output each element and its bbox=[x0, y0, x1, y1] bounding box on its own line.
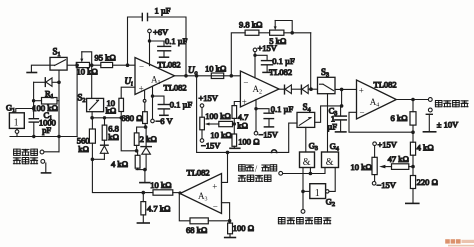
node diode/S3 bbox=[309, 87, 313, 91]
svg-text:TL082: TL082 bbox=[269, 67, 292, 77]
node 680 bottom bbox=[144, 125, 148, 129]
svg-text:0.1 µF: 0.1 µF bbox=[272, 56, 295, 66]
-15V supply A2 bbox=[254, 100, 258, 136]
wire feedback to output node bbox=[284, 32, 311, 34]
svg-text:kΩ: kΩ bbox=[108, 132, 119, 142]
resistor 100 Ohm (A3) bbox=[228, 221, 233, 237]
wire S2 bottom node bbox=[91, 112, 93, 118]
text 信号输入 bbox=[238, 175, 271, 181]
watermark bbox=[445, 239, 474, 246]
output terminal 2 bbox=[428, 108, 432, 112]
svg-text:100 Ω: 100 Ω bbox=[238, 137, 259, 147]
resistor 4.7 kOhm bbox=[141, 193, 146, 223]
op-amp A4 bbox=[357, 80, 397, 119]
gate G1 (one-shot) bbox=[9, 109, 33, 137]
offset trim +15V terminal bbox=[200, 104, 204, 117]
svg-text:−: − bbox=[243, 77, 248, 87]
resistor 4.7 kOhm (A2) bbox=[232, 106, 237, 119]
svg-text:TL082: TL082 bbox=[187, 168, 210, 178]
resistor 68 kOhm bbox=[190, 218, 208, 224]
+15V terminal (trim right) bbox=[373, 142, 377, 157]
wire S1 right to pot bbox=[67, 64, 76, 66]
svg-text:kΩ: kΩ bbox=[78, 144, 89, 154]
svg-text:680 Ω: 680 Ω bbox=[121, 113, 142, 123]
resistor R1 100 kOhm bbox=[34, 98, 59, 105]
node bus / 4.7k tap bbox=[142, 191, 146, 195]
ground at time pulse input bbox=[42, 163, 51, 173]
-6V supply terminal bbox=[151, 87, 155, 123]
op-amp A3 bbox=[180, 174, 222, 214]
text 时间脉 bbox=[14, 149, 38, 155]
svg-text:220 Ω: 220 Ω bbox=[417, 177, 438, 187]
resistor 2 kOhm bbox=[134, 133, 139, 146]
wire S4 output to hold node bbox=[315, 106, 342, 122]
svg-text:6 kΩ: 6 kΩ bbox=[391, 113, 408, 123]
svg-text:100 kΩ: 100 kΩ bbox=[205, 111, 231, 121]
svg-text:4.7 kΩ: 4.7 kΩ bbox=[147, 204, 171, 214]
node feedback tap bbox=[126, 63, 130, 67]
svg-text:10 kΩ: 10 kΩ bbox=[210, 130, 231, 140]
feedback wire A3 bbox=[179, 193, 190, 221]
-15V terminal (trim right) bbox=[372, 182, 376, 186]
svg-text:TL082: TL082 bbox=[374, 80, 397, 90]
wire 10k bottom long bbox=[121, 112, 136, 151]
resistor 560 kOhm bbox=[89, 118, 95, 160]
node pot right / S2 line bbox=[90, 63, 94, 67]
potentiometer 5 kOhm bbox=[270, 21, 293, 36]
op-amp A2 bbox=[240, 71, 279, 107]
G3 right pin bbox=[309, 168, 311, 174]
resistor 6 kOhm bbox=[410, 100, 416, 133]
node diode cathode bbox=[57, 81, 61, 85]
svg-text:100 Ω: 100 Ω bbox=[233, 223, 254, 233]
svg-text:0.1 µF: 0.1 µF bbox=[165, 36, 188, 46]
svg-text:10 kΩ: 10 kΩ bbox=[351, 162, 372, 172]
ground under 4k bbox=[140, 170, 150, 183]
node A3 output bbox=[178, 191, 181, 194]
decoupling cap 0.1uF (A2 top) bbox=[255, 55, 273, 72]
wire 68k to - node bbox=[208, 220, 229, 222]
ground under C3 bbox=[336, 131, 346, 133]
wire S1 left to ground bbox=[31, 65, 50, 72]
text 冲输入 bbox=[13, 158, 37, 164]
wire 680 to 2k bbox=[137, 127, 146, 133]
svg-text:9.8 kΩ: 9.8 kΩ bbox=[239, 19, 263, 29]
polarity input wire bbox=[301, 168, 310, 214]
wire hop on bus bbox=[272, 150, 277, 153]
text 极性信号输入 bbox=[278, 218, 330, 224]
switch S3 bbox=[318, 77, 336, 93]
diode under 6.8k bbox=[100, 140, 108, 159]
wire down to A3 bus bbox=[92, 159, 153, 192]
resistor 680 Ohm bbox=[143, 90, 148, 127]
svg-text:−: − bbox=[213, 201, 218, 211]
wire pot to 95k bbox=[90, 64, 101, 66]
ground under 220 bbox=[406, 202, 419, 204]
wire A1 noninverting input bbox=[121, 87, 135, 98]
resistor 6.8 kOhm bbox=[102, 116, 107, 140]
gate G4 bbox=[322, 152, 339, 168]
text 直流输出 bbox=[435, 101, 468, 107]
feedback riser A2 bbox=[231, 33, 245, 76]
svg-text:1: 1 bbox=[315, 188, 320, 199]
wire S4 control bbox=[305, 127, 307, 152]
sample/hold input terminal bbox=[279, 171, 283, 175]
decoupling capacitor 0.1uF at -6V bbox=[153, 96, 170, 115]
+15V supply A2 bbox=[253, 48, 257, 78]
resistor 10k at A1 + bbox=[119, 98, 124, 111]
svg-text:95 kΩ: 95 kΩ bbox=[95, 53, 116, 63]
diode beside S1 bbox=[34, 78, 59, 87]
decoupling capacitor 0.1uF at +6V bbox=[150, 41, 171, 57]
potentiometer (offset trim left) bbox=[200, 117, 219, 139]
svg-text:+: + bbox=[359, 86, 364, 96]
wire Uo sampling bus bbox=[197, 76, 297, 153]
time pulse input terminal 1 bbox=[40, 150, 59, 154]
svg-text:TL082: TL082 bbox=[164, 83, 187, 93]
+6V supply terminal bbox=[148, 29, 152, 65]
diode D2 after A2 bbox=[301, 85, 317, 94]
resistor 95 kOhm bbox=[101, 62, 113, 67]
wire 9.8k to 5k pot bbox=[259, 32, 270, 34]
resistor 10 kOhm to A3 bbox=[153, 190, 180, 195]
svg-text:&: & bbox=[303, 157, 311, 168]
svg-text:4 kΩ: 4 kΩ bbox=[111, 159, 128, 169]
riser to pot left bbox=[76, 65, 78, 136]
capacitor C3 1uF bbox=[335, 106, 346, 131]
svg-text:10 kΩ: 10 kΩ bbox=[77, 67, 98, 77]
svg-text:+: + bbox=[242, 97, 247, 107]
svg-text:+: + bbox=[139, 83, 144, 93]
svg-text:2 kΩ: 2 kΩ bbox=[140, 134, 157, 144]
switch S1 bbox=[50, 57, 67, 70]
potentiometer 10 kOhm (trim right) bbox=[372, 157, 377, 181]
-15V terminal (trim left) bbox=[200, 139, 204, 143]
resistor 4 kOhm bbox=[135, 151, 140, 170]
sample/hold wire bbox=[283, 168, 325, 174]
ground under 100 Ohm (A3) bbox=[225, 237, 236, 239]
svg-text:pF: pF bbox=[42, 125, 51, 135]
svg-text:−: − bbox=[360, 108, 365, 118]
gate G3 bbox=[300, 152, 315, 168]
svg-text:47 kΩ: 47 kΩ bbox=[388, 154, 409, 164]
wire 95k to A1 inverting input bbox=[113, 64, 135, 66]
feedback capacitor 1uF bbox=[128, 13, 187, 75]
output terminal 1 bbox=[428, 98, 432, 102]
wiper tie wire bbox=[82, 52, 92, 99]
resistor 47 kOhm bbox=[379, 164, 413, 170]
potentiometer 10k (input attenuator) bbox=[76, 52, 89, 68]
resistor 10 kOhm (A2 input) bbox=[211, 73, 223, 79]
svg-text:−15V: −15V bbox=[259, 130, 279, 140]
svg-text:0.1 µF: 0.1 µF bbox=[271, 104, 294, 114]
wire A2 + input bbox=[234, 102, 240, 106]
ground symbol at output bbox=[423, 114, 435, 132]
wire A4 output bbox=[396, 99, 428, 101]
svg-text:kΩ: kΩ bbox=[106, 105, 117, 115]
decoupling cap 0.1uF (A2 bottom) bbox=[256, 109, 274, 127]
wire Uo output line bbox=[175, 75, 241, 77]
bottom bus wire bbox=[10, 136, 77, 138]
svg-text:−15V: −15V bbox=[201, 140, 221, 150]
text 采样/保持 bbox=[239, 164, 277, 174]
wire S3 to A4 bbox=[335, 88, 357, 90]
diode beside 2k bbox=[141, 127, 151, 170]
resistor 9.8 kOhm bbox=[245, 30, 259, 35]
diode D1 after A2 bbox=[279, 85, 301, 94]
svg-text:10 kΩ: 10 kΩ bbox=[150, 180, 171, 190]
svg-text:+15V: +15V bbox=[258, 43, 278, 53]
wire hold node bbox=[341, 89, 343, 106]
svg-text:± 10V: ± 10V bbox=[437, 120, 459, 130]
svg-text:10 kΩ: 10 kΩ bbox=[205, 63, 226, 73]
wire S3 control bbox=[327, 94, 329, 152]
wire node row bbox=[92, 117, 121, 119]
wire A3 - input bbox=[222, 203, 230, 221]
svg-text:+15V: +15V bbox=[378, 140, 398, 150]
switch S2 bbox=[87, 98, 104, 111]
svg-text:68 kΩ: 68 kΩ bbox=[186, 225, 207, 235]
svg-text:−15V: −15V bbox=[377, 180, 397, 190]
ground at S1 bbox=[27, 72, 36, 74]
gate G2 (inverter) bbox=[310, 168, 335, 199]
svg-text:1 µF: 1 µF bbox=[155, 6, 171, 16]
wire 2k bottom bbox=[136, 145, 138, 150]
svg-text:0.1 µF: 0.1 µF bbox=[170, 99, 193, 109]
wire join 560k/diode bbox=[92, 158, 104, 160]
svg-text:−: − bbox=[139, 61, 144, 71]
resistor 220 Ohm bbox=[410, 167, 415, 203]
resistor 100 kOhm (trim) bbox=[219, 121, 235, 126]
svg-text:TL082: TL082 bbox=[158, 60, 181, 70]
wire diode/4k join bbox=[136, 169, 146, 171]
resistor 4 kOhm (A4) bbox=[410, 132, 415, 166]
svg-text:kΩ: kΩ bbox=[237, 121, 248, 131]
svg-text:4 kΩ: 4 kΩ bbox=[417, 142, 434, 152]
resistor 100 Ohm (A2) bbox=[230, 134, 240, 148]
op-amp A1 bbox=[135, 58, 175, 95]
ground under 4.7k bbox=[137, 222, 149, 224]
svg-text:+: + bbox=[212, 182, 217, 192]
svg-text:1: 1 bbox=[14, 118, 19, 129]
left bus wire bbox=[33, 82, 35, 118]
switch S4 bbox=[297, 112, 315, 127]
svg-text:−6 V: −6 V bbox=[156, 116, 174, 126]
time pulse input terminal 2 bbox=[41, 160, 45, 164]
node 47k tap bbox=[411, 165, 415, 169]
wire A3 + input riser bbox=[222, 152, 228, 182]
capacitor C1 1000 pF bbox=[29, 119, 38, 137]
wire S1 bottom branch bbox=[58, 70, 60, 152]
wire 4.7k to 100 Ohm bbox=[233, 118, 235, 134]
svg-text:&: & bbox=[326, 157, 334, 168]
svg-text:+15V: +15V bbox=[199, 93, 219, 103]
svg-text:µF: µF bbox=[327, 122, 337, 132]
wire A4 - feedback bbox=[349, 112, 413, 132]
